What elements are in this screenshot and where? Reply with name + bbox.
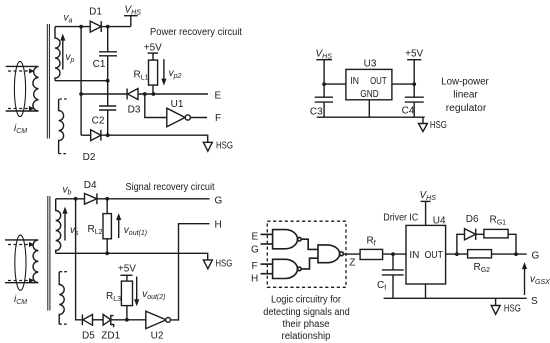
svg-text:HSG: HSG [216, 141, 233, 152]
terminal V_HS [124, 16, 138, 27]
i_CM dashed arrow bottom (T2) [8, 278, 35, 283]
svg-text:+5V: +5V [118, 264, 136, 275]
svg-text:U2: U2 [151, 331, 164, 342]
transformer T2 secondary winding bottom (dashed ends) [59, 272, 67, 325]
wire U1 output to F [190, 117, 207, 119]
driver U4 box [406, 225, 446, 284]
node E-line branch to U1 [143, 92, 147, 96]
svg-text:relationship: relationship [282, 331, 331, 342]
wire D1 to V_HS riser [101, 26, 131, 28]
svg-text:Logic circuitry for: Logic circuitry for [271, 295, 342, 306]
diode D1 [90, 21, 101, 32]
NAND gate 1 (E,G) [273, 230, 302, 249]
svg-text:C4: C4 [402, 106, 415, 117]
resistor R_f [360, 249, 383, 259]
resistor R_L1 [149, 60, 158, 94]
svg-text:Signal recovery circuit: Signal recovery circuit [126, 182, 215, 193]
v_p2 arrow [161, 59, 166, 85]
wire E input stub [261, 233, 273, 235]
svg-text:U3: U3 [364, 59, 377, 70]
transformer T1 core [47, 24, 49, 139]
svg-text:linear: linear [453, 90, 478, 101]
svg-text:Z: Z [349, 258, 355, 269]
svg-text:C1: C1 [93, 59, 106, 70]
svg-text:+5V: +5V [144, 43, 162, 54]
wire top branch up [457, 234, 465, 254]
wire R_f to U4 [383, 253, 406, 255]
node R_L1 bottom [152, 92, 156, 96]
svg-text:Driver IC: Driver IC [383, 212, 418, 223]
ground HSG (top-left) [203, 142, 212, 151]
wire to G terminal [492, 253, 527, 255]
capacitor C_f [382, 254, 404, 298]
node C_f junction [391, 252, 395, 256]
v_GSX arrow [522, 262, 527, 295]
svg-text:IN: IN [350, 76, 359, 87]
capacitor C2 [99, 81, 116, 136]
wire node to U2 input [127, 319, 146, 321]
wire F input stub [261, 263, 273, 265]
wire U4 OUT [446, 253, 468, 255]
node R_G1/R_G2 join [514, 252, 518, 256]
transformer T1 primary winding [6, 66, 39, 111]
transformer T1 common-mode ellipse [14, 61, 25, 116]
svg-text:D6: D6 [466, 214, 479, 225]
svg-text:IN: IN [409, 250, 419, 261]
svg-text:U1: U1 [171, 99, 184, 110]
wire Z output [343, 253, 360, 255]
terminal V_HS (driver) [421, 201, 431, 225]
svg-text:ZD1: ZD1 [101, 331, 120, 342]
terminal +5V (regulator) [407, 60, 421, 97]
node D1-C1 junction [106, 25, 110, 29]
svg-text:C3: C3 [310, 107, 323, 118]
svg-text:D5: D5 [82, 331, 95, 342]
wire branch down to U1 [145, 94, 167, 118]
svg-text:+5V: +5V [405, 49, 423, 60]
wire coil top to D4 (v_b wire) [56, 198, 85, 200]
diode D4 [85, 193, 97, 204]
transformer T1 secondary winding bottom (dashed ends) [59, 99, 67, 154]
wire v_b node down to D5 [76, 199, 83, 320]
v_out1 arrow [116, 213, 121, 238]
wire HSG line (top-left) [101, 135, 208, 142]
svg-text:C2: C2 [92, 116, 105, 127]
terminal +5V (R_L3) [120, 275, 132, 281]
inverter U1 [167, 108, 191, 127]
caption: logic circuitry description [263, 295, 350, 343]
svg-text:H: H [251, 274, 258, 285]
resistor R_G2 [468, 250, 492, 258]
wire D4 to G [97, 198, 210, 200]
wire OUT [392, 83, 414, 85]
title: Low-power linear regulator [441, 77, 489, 115]
svg-text:F: F [215, 113, 221, 124]
svg-text:detecting signals and: detecting signals and [263, 307, 350, 318]
resistor R_G1 [484, 229, 516, 254]
zener diode ZD1 [103, 314, 127, 327]
svg-text:E: E [215, 91, 222, 102]
svg-text:D3: D3 [128, 105, 141, 116]
diode D3 [127, 89, 138, 100]
wire regulator ground bus [317, 116, 425, 118]
transformer T1 secondary winding top [55, 27, 60, 81]
node C2 bottom junction [106, 133, 110, 137]
diode D2 [81, 130, 101, 141]
wire coil bottom to C1/C2 junction [55, 80, 108, 82]
transformer T2 secondary winding top [56, 199, 61, 254]
svg-text:HSG: HSG [215, 258, 232, 269]
i_CM dashed arrow bottom [8, 106, 35, 111]
wire H input stub [261, 273, 273, 275]
ground HSG (driver) [491, 298, 500, 314]
svg-text:HSG: HSG [504, 304, 521, 315]
svg-text:GND: GND [360, 89, 378, 100]
svg-text:OUT: OUT [370, 76, 387, 87]
wire gate2 to gate3 [301, 258, 318, 269]
v_out2 arrow [134, 277, 139, 307]
capacitor C4 [405, 97, 424, 117]
wire: coil top to D1 (v_a wire) [55, 26, 90, 28]
svg-text:F: F [252, 261, 258, 272]
svg-text:D1: D1 [89, 7, 102, 18]
wire source bus [384, 297, 527, 299]
i_CM dashed arrow top [8, 69, 35, 74]
node v_b [74, 197, 78, 201]
svg-text:Power recovery circuit: Power recovery circuit [150, 27, 242, 38]
NAND gate 2 (F,H) [273, 259, 302, 278]
node RL2 bottom [105, 251, 109, 255]
capacitor C1 [99, 27, 117, 81]
NAND gate 3 (output) [318, 245, 343, 263]
svg-text:G: G [215, 196, 223, 207]
terminal +5V (R_L1) [148, 53, 159, 60]
inverter U2 [146, 311, 171, 328]
resistor R_L2 [103, 199, 111, 254]
svg-text:D4: D4 [84, 180, 97, 191]
regulator U3 [346, 69, 392, 99]
svg-text:D2: D2 [83, 152, 96, 163]
terminal V_HS (regulator) [316, 60, 332, 97]
svg-text:G: G [251, 244, 259, 255]
node regulator input [322, 82, 326, 86]
wire E line [81, 93, 208, 95]
ground HSG (signal) [203, 260, 212, 269]
wire IN [324, 83, 346, 85]
svg-text:U4: U4 [433, 215, 446, 226]
wire gate1 to gate3 [301, 239, 318, 249]
svg-text:E: E [252, 232, 259, 243]
node ZD1-RL3-U2 junction [125, 318, 129, 322]
svg-text:regulator: regulator [446, 103, 487, 114]
diode D5 [82, 314, 103, 325]
wire HSG line (signal) [56, 253, 208, 260]
i_CM dashed arrow top (T2) [8, 242, 35, 247]
svg-text:S: S [531, 296, 538, 307]
capacitor C3 [315, 97, 333, 117]
node D4-RL2 junction [105, 197, 109, 201]
wire H line [170, 224, 210, 320]
transformer T2 common-mode ellipse [15, 235, 26, 290]
svg-text:G: G [532, 251, 540, 262]
ground HSG (regulator) [419, 117, 428, 131]
svg-text:H: H [215, 220, 222, 231]
node C1-C2 junction [106, 79, 110, 83]
svg-text:their phase: their phase [283, 319, 330, 330]
diode D6 [465, 229, 484, 240]
resistor R_L3 [121, 281, 132, 320]
svg-text:OUT: OUT [425, 250, 443, 261]
transformer T2 primary winding [5, 240, 38, 283]
svg-text:Low-power: Low-power [441, 77, 489, 88]
node regulator output [412, 82, 416, 86]
wire GND pin [368, 100, 370, 117]
node v_a [79, 25, 83, 29]
wire G input stub [261, 243, 273, 245]
node E-line junction [79, 92, 83, 96]
v_p arrow [60, 34, 65, 70]
transformer T2 core [48, 196, 50, 311]
svg-text:HSG: HSG [430, 120, 447, 131]
wire v_a node down to D2 line [80, 27, 82, 136]
dashed box: logic circuitry [267, 221, 346, 287]
wire U4 ground pin [425, 284, 427, 298]
v_s arrow [62, 207, 67, 241]
node OUT junction [455, 252, 459, 256]
